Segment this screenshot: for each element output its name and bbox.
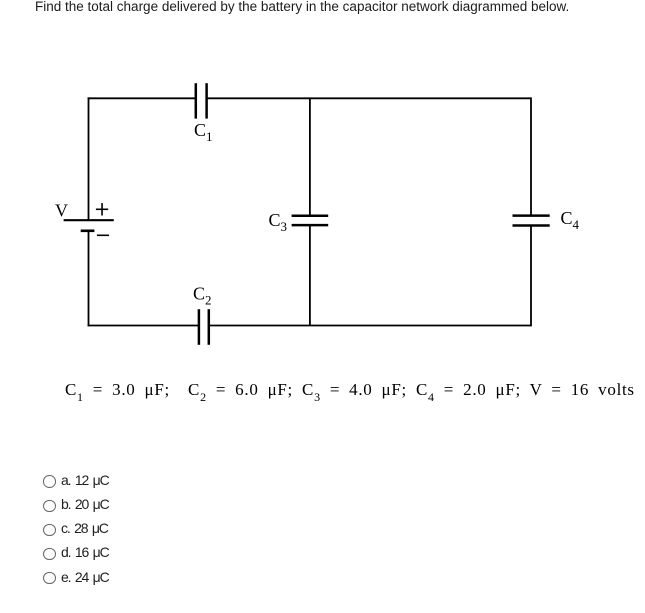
given values line: [65, 381, 635, 403]
wire left lower (battery -): [88, 230, 90, 326]
svg-text:C4: C4: [561, 208, 580, 232]
answer option e: [43, 569, 108, 586]
svg-text:C3: C3: [269, 210, 288, 234]
wire right upper: [530, 97, 532, 215]
wire left upper (battery +): [88, 97, 90, 219]
question title: [35, 0, 569, 14]
battery V short plate (-): [81, 230, 95, 233]
capacitor C2 right plate: [208, 309, 211, 345]
capacitor C1 left plate: [195, 83, 198, 118]
answer option b: [43, 497, 108, 514]
capacitor C4 bottom plate: [513, 224, 550, 227]
answer option d: [43, 545, 108, 562]
capacitor C4 top plate: [513, 214, 550, 217]
svg-text:C1: C1: [194, 120, 213, 144]
battery minus sign: [97, 234, 109, 236]
answer option a: [43, 472, 108, 489]
capacitor C3 top plate: [292, 215, 329, 218]
wire bottom-left segment: [88, 325, 199, 327]
wire bottom-right segment: [209, 325, 531, 327]
battery plus sign: [96, 203, 108, 215]
wire top-left segment: [88, 97, 196, 99]
battery V long plate (+): [64, 219, 114, 221]
svg-text:V: V: [55, 201, 68, 221]
wire right lower: [530, 226, 532, 327]
capacitor C2 left plate: [198, 309, 201, 345]
capacitor C3 bottom plate: [292, 224, 329, 227]
capacitor C1 right plate: [205, 83, 208, 118]
wire middle upper: [309, 98, 311, 216]
wire top-right segment: [207, 97, 531, 99]
wire middle lower: [309, 225, 311, 325]
svg-text:C2: C2: [193, 284, 212, 308]
answer option c: [43, 521, 108, 538]
